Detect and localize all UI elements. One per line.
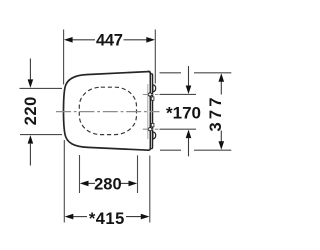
dim 170 top extension line <box>160 93 197 95</box>
hinge top tab <box>151 97 154 100</box>
dim 415 left extension line <box>63 140 65 223</box>
dim 280 right extension line <box>137 155 139 193</box>
dim 447 right extension line <box>154 30 156 84</box>
dim 377 top arrow (up) <box>219 73 225 82</box>
hinge top screw <box>148 93 151 96</box>
dim 170 upper arrow (down) <box>186 86 192 95</box>
dim 280 line right segment <box>121 182 130 184</box>
dim 415 right arrow <box>141 214 150 220</box>
hinge bottom tab <box>151 123 154 126</box>
seat ring hidden back line <box>147 84 149 139</box>
hinge top bump <box>153 85 156 92</box>
hinge bottom bump <box>153 132 156 139</box>
svg-text:280: 280 <box>94 175 122 193</box>
dim 170 bottom extension line <box>160 128 197 130</box>
svg-text:377: 377 <box>207 94 225 131</box>
dim 280 line left segment <box>87 182 95 184</box>
dim 415 line left segment <box>72 216 88 218</box>
dim 280 right arrow <box>129 181 138 187</box>
dim 220 bottom extension line <box>20 134 62 136</box>
svg-text:*415: *415 <box>89 210 125 228</box>
dim 415 right extension line <box>149 156 151 223</box>
dim 170 lower arrow (up) <box>186 130 192 139</box>
svg-text:220: 220 <box>22 96 40 125</box>
dim 377 top extension line <box>160 72 182 74</box>
dim 447 line left segment <box>71 39 95 41</box>
dim 377 bottom extension line <box>160 149 181 151</box>
seat opening dashed oval <box>79 87 136 134</box>
dim 280 left extension line <box>79 155 81 193</box>
dim 447 left extension line <box>63 30 65 85</box>
dim 220 lower stem <box>29 143 31 166</box>
dim 280 left arrow <box>80 181 89 187</box>
dim 220 top extension line <box>20 87 63 89</box>
dim 170 upper stem <box>188 66 190 86</box>
hinge bottom center line <box>143 128 159 130</box>
horizontal center line <box>56 111 160 113</box>
dim 415 left arrow <box>65 214 74 220</box>
dim 447 line right segment <box>124 39 148 41</box>
dim 220 upper stem <box>29 59 31 81</box>
dim 447 right arrow <box>146 37 155 43</box>
dim 447 left arrow <box>64 37 73 43</box>
svg-text:*170: *170 <box>166 103 201 122</box>
dim 170 lower stem <box>188 138 190 157</box>
dim 415 line right segment <box>126 216 143 218</box>
dim 377 bottom arrow (down) <box>219 141 225 150</box>
dim 220 lower arrow (up) <box>28 135 34 144</box>
hinge bottom screw <box>148 128 151 131</box>
seat ring back edge (outer cap behind lid) <box>151 74 153 149</box>
seat lid outline <box>64 71 151 150</box>
hinge top center line <box>143 94 159 96</box>
dim 377 line upper segment <box>220 80 222 95</box>
dim 220 upper arrow (down) <box>28 79 34 88</box>
dim 377 line lower segment <box>220 131 222 144</box>
svg-text:447: 447 <box>96 32 123 50</box>
